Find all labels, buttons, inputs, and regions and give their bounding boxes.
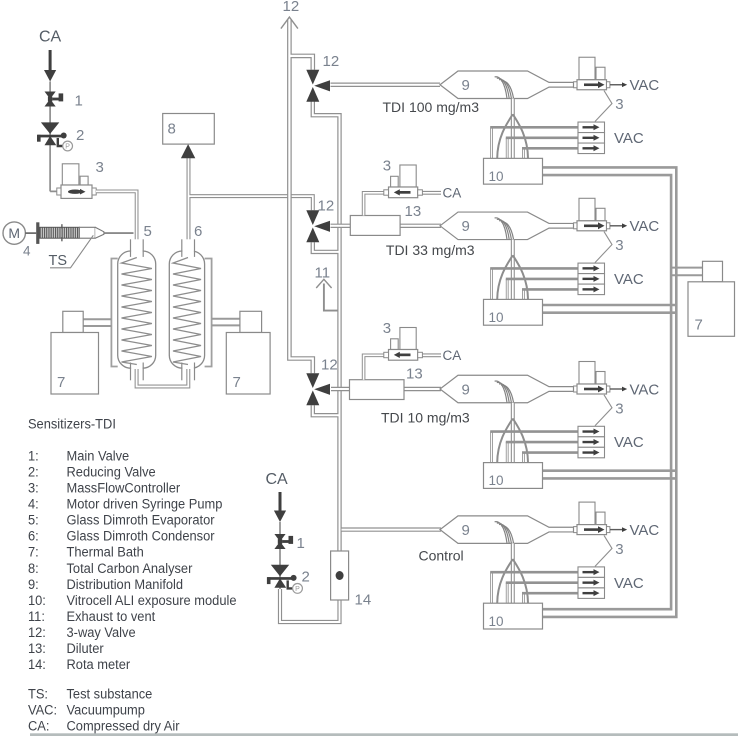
condenser coil: [173, 258, 201, 365]
diluter 13 (TDI 33): [350, 203, 421, 235]
svg-text:TS:: TS:: [28, 686, 48, 702]
svg-text:Glass Dimroth Evaporator: Glass Dimroth Evaporator: [67, 512, 216, 528]
TDI 33 row: manifold 9, MFC 3, VAC meters, module 10: [440, 198, 659, 325]
Control row: manifold 9, MFC 3, VAC meters, module 10: [440, 502, 659, 629]
svg-text:TDI 100 mg/m3: TDI 100 mg/m3: [383, 99, 480, 115]
svg-text:Diluter: Diluter: [67, 641, 105, 657]
row feed pipes to manifolds: [331, 85, 442, 530]
svg-text:2: 2: [76, 127, 84, 144]
svg-text:M: M: [8, 225, 20, 241]
diluter MFC 3 with CA (TDI 10): [364, 320, 462, 380]
svg-text:6:: 6:: [28, 528, 39, 544]
bottom CA pipe loop to rota meter: [280, 589, 340, 622]
svg-text:CA:: CA:: [28, 718, 49, 734]
evaporator jacket: [111, 259, 117, 367]
svg-text:P: P: [295, 586, 300, 593]
svg-text:8:: 8:: [28, 560, 39, 576]
3-way valve 12 (TDI 100): [306, 70, 330, 102]
rota meter 14: [331, 551, 372, 609]
svg-text:12: 12: [323, 53, 340, 70]
thermal bath water bus (inner line): [543, 175, 672, 609]
svg-text:8: 8: [168, 121, 176, 138]
TDI 10 row: manifold 9, MFC 3, VAC meters, module 10: [440, 362, 659, 489]
svg-text:1: 1: [75, 93, 83, 110]
svg-text:5:: 5:: [28, 512, 39, 528]
reducing valve 2 (bottom): [267, 565, 303, 594]
module water pipes rows 2,3: [543, 305, 677, 478]
svg-text:3:: 3:: [28, 480, 39, 496]
reducing valve 2 (top): [37, 122, 73, 151]
diluter MFC 3 with CA (TDI 33): [364, 158, 462, 216]
motor driven syringe pump 4: [25, 222, 133, 244]
pipe CA to valves and MFC: [50, 82, 61, 192]
svg-text:14: 14: [355, 592, 372, 609]
thermal bath 7 (middle): [226, 311, 270, 394]
svg-text:VAC:: VAC:: [28, 702, 57, 718]
glass dimroth condensor 6: [169, 223, 204, 380]
test substance TS label: [49, 235, 94, 269]
svg-text:4:: 4:: [28, 496, 39, 512]
svg-text:Exhaust to vent: Exhaust to vent: [67, 609, 156, 625]
svg-text:Reducing Valve: Reducing Valve: [67, 464, 156, 480]
svg-text:3: 3: [383, 320, 391, 337]
svg-text:12: 12: [283, 0, 300, 15]
svg-text:12: 12: [318, 198, 335, 215]
svg-text:Thermal Bath: Thermal Bath: [67, 544, 144, 560]
bottom scan bar: [30, 733, 738, 736]
pipe MFC to evaporator: [96, 191, 137, 254]
bottom U pipe evaporator-condenser: [137, 369, 189, 387]
svg-text:7:: 7:: [28, 544, 39, 560]
svg-text:7: 7: [233, 374, 241, 391]
svg-text:TDI 33 mg/m3: TDI 33 mg/m3: [386, 242, 475, 258]
condenser jacket: [205, 259, 212, 367]
svg-text:10:: 10:: [28, 592, 46, 608]
pipe bottom CA branch: [279, 522, 281, 589]
svg-text:12: 12: [321, 357, 338, 374]
main valve 1 (bottom): [274, 534, 293, 549]
svg-text:CA: CA: [39, 29, 62, 46]
svg-text:9:: 9:: [28, 576, 39, 592]
svg-text:6: 6: [194, 223, 202, 240]
svg-text:CA: CA: [266, 471, 289, 488]
svg-text:TS: TS: [49, 253, 68, 269]
motor M: [3, 222, 31, 259]
main valve 1 (top): [45, 92, 64, 107]
vent arrow top (12): [281, 0, 299, 29]
svg-text:11:: 11:: [28, 609, 45, 625]
3-way valve 12 (TDI 10): [306, 373, 330, 405]
svg-text:Rota meter: Rota meter: [67, 657, 131, 673]
svg-text:Main Valve: Main Valve: [67, 448, 130, 464]
svg-text:7: 7: [57, 374, 65, 391]
svg-text:Total Carbon Analyser: Total Carbon Analyser: [67, 560, 193, 576]
svg-text:Vitrocell ALI exposure module: Vitrocell ALI exposure module: [67, 592, 237, 608]
svg-text:CA: CA: [443, 348, 462, 363]
bath pipes left: [83, 319, 240, 326]
svg-text:Motor driven Syringe Pump: Motor driven Syringe Pump: [67, 496, 223, 512]
svg-text:CA: CA: [443, 186, 462, 201]
mass flow controller 3 (left): [57, 159, 104, 198]
main TDI supply column with branch to valve 12 (TDI100) and bend into valve 12 (TDI10): [289, 19, 312, 373]
total carbon analyser 8: [163, 114, 215, 159]
svg-text:TDI 10 mg/m3: TDI 10 mg/m3: [381, 410, 470, 426]
svg-text:2: 2: [302, 569, 310, 586]
svg-text:13: 13: [406, 366, 423, 383]
svg-text:13: 13: [405, 203, 422, 220]
svg-text:13:: 13:: [28, 641, 46, 657]
pipes to thermal bath 7 (right): [672, 268, 703, 276]
thermal bath water bus (outer line): [543, 167, 677, 617]
svg-text:5: 5: [144, 223, 152, 240]
TDI 100 row: manifold 9, MFC 3, VAC meters, module 10: [440, 57, 659, 184]
svg-text:11: 11: [315, 265, 331, 282]
svg-text:Glass Dimroth Condensor: Glass Dimroth Condensor: [67, 528, 216, 544]
evaporator coil: [122, 258, 152, 365]
CA source (bottom): [266, 471, 289, 522]
svg-text:1: 1: [297, 535, 305, 552]
thermal bath 7 (right): [688, 261, 735, 336]
CA source (top left): [39, 29, 62, 82]
svg-text:3-way Valve: 3-way Valve: [67, 625, 136, 641]
svg-text:Test substance: Test substance: [67, 686, 153, 702]
exhaust to vent 11: [315, 265, 338, 311]
svg-text:12:: 12:: [28, 625, 46, 641]
legend: [28, 416, 237, 734]
svg-text:Vacuumpump: Vacuumpump: [67, 702, 145, 718]
svg-text:7: 7: [695, 317, 703, 334]
svg-text:4: 4: [23, 244, 31, 259]
svg-text:1:: 1:: [28, 448, 39, 464]
svg-text:Compressed dry Air: Compressed dry Air: [67, 718, 180, 734]
svg-text:14:: 14:: [28, 657, 46, 673]
3-way valve 12 (TDI 33): [306, 210, 330, 242]
svg-text:3: 3: [96, 159, 104, 176]
pipe from condenser to analyser branch and to 3-way valve 12 (TDI33): [189, 158, 313, 255]
diluter 13 (TDI 10): [350, 366, 423, 400]
svg-text:P: P: [65, 144, 70, 151]
svg-text:Distribution Manifold: Distribution Manifold: [67, 576, 184, 592]
exhaust collection line (vertical, right of valves): [313, 102, 340, 552]
thermal bath 7 (far left): [51, 311, 99, 394]
svg-text:2:: 2:: [28, 464, 39, 480]
glass dimroth evaporator 5: [118, 223, 156, 380]
svg-text:3: 3: [383, 158, 391, 175]
svg-text:Sensitizers-TDI: Sensitizers-TDI: [28, 416, 116, 432]
svg-text:MassFlowController: MassFlowController: [67, 480, 181, 496]
svg-text:Control: Control: [419, 548, 464, 564]
